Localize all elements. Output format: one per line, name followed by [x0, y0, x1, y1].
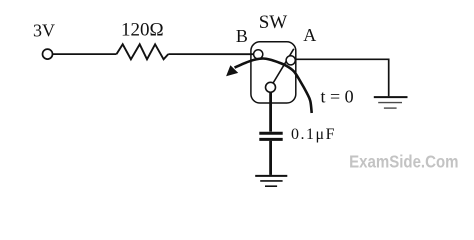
ground (right) line 2 [378, 102, 402, 104]
wire from terminal A to right ground [295, 59, 388, 96]
capacitor C1 top plate [259, 132, 282, 135]
ground (right) line 1 [374, 96, 408, 98]
ground (bottom) line 3 [265, 185, 277, 187]
wire from 3V terminal to resistor [53, 53, 117, 55]
switch terminal B contact circle [254, 50, 263, 59]
svg-text:ExamSide.Com: ExamSide.Com [349, 151, 458, 171]
svg-text:SW: SW [259, 12, 288, 33]
switch lever from pivot to terminal A [273, 49, 294, 83]
switch pivot contact circle [266, 82, 276, 92]
svg-text:0.1μF: 0.1μF [291, 126, 336, 143]
ground (bottom) line 1 [255, 175, 287, 177]
capacitor C1 bottom plate [259, 138, 282, 141]
wire from resistor to switch terminal B [168, 53, 254, 55]
svg-text:120Ω: 120Ω [121, 20, 164, 41]
svg-text:A: A [303, 25, 316, 45]
switch SW body rounded box [251, 42, 296, 103]
svg-text:3V: 3V [33, 21, 55, 41]
ground (right) line 3 [384, 107, 397, 109]
switch actuation arc arrow from A side to B side [235, 59, 312, 114]
svg-text:t = 0: t = 0 [321, 87, 354, 107]
terminal: open circle of 3V source [43, 49, 53, 59]
wire from switch pivot down to capacitor [269, 92, 272, 131]
wire from capacitor to bottom ground [269, 141, 272, 175]
arrowhead of actuation arrow [226, 65, 238, 76]
resistor R1 120Ω zigzag [117, 44, 169, 59]
switch terminal A contact circle [286, 56, 295, 65]
svg-text:B: B [236, 26, 248, 46]
ground (bottom) line 2 [260, 180, 282, 182]
